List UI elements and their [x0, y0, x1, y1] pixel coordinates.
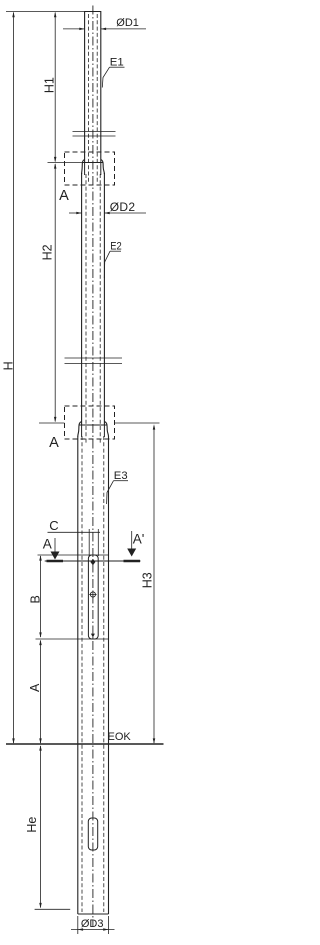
svg-text:He: He	[25, 817, 39, 833]
svg-text:H3: H3	[140, 572, 154, 588]
svg-text:C: C	[49, 518, 58, 533]
section marker A	[43, 537, 63, 562]
svg-text:E2: E2	[110, 241, 122, 253]
buried slot	[88, 818, 97, 850]
extension line slot bottom	[36, 638, 109, 640]
svg-text:H: H	[1, 361, 15, 370]
cable slot	[88, 555, 98, 639]
joint 2 marks	[65, 358, 123, 364]
dimension H3	[140, 424, 155, 743]
dimension D1	[63, 17, 146, 30]
top level line	[6, 11, 101, 13]
slot edge extension right	[97, 529, 99, 556]
svg-text:A: A	[59, 188, 69, 204]
svg-text:A': A'	[133, 532, 145, 547]
slot top diamond mark	[90, 559, 95, 565]
pole top section	[85, 12, 101, 164]
extension line pole base	[35, 908, 71, 910]
extension line joint 1	[48, 162, 85, 164]
svg-text:E3: E3	[114, 470, 128, 482]
joint 1 crimp	[82, 160, 105, 176]
svg-text:A: A	[49, 435, 59, 451]
dimension He	[25, 745, 42, 908]
dimension D2	[69, 200, 146, 214]
section marker A'	[124, 531, 145, 561]
pole bottom section	[77, 436, 79, 914]
dimension D3	[71, 916, 115, 934]
svg-text:E1: E1	[110, 57, 124, 69]
svg-text:H1: H1	[43, 77, 57, 93]
label E3	[107, 470, 128, 504]
slot edge extension left	[88, 529, 90, 556]
joint 1 marks	[73, 132, 116, 137]
svg-text:EOK: EOK	[108, 731, 132, 743]
ground line EOK	[6, 743, 164, 745]
section line A-A'	[45, 560, 141, 562]
svg-text:H2: H2	[40, 244, 54, 260]
pole middle section inner walls	[85, 174, 87, 443]
slot bolt hole	[89, 591, 96, 598]
pole bottom section inner walls	[81, 436, 83, 912]
svg-text:ØD3: ØD3	[81, 918, 104, 930]
svg-text:ØD1: ØD1	[116, 17, 139, 29]
dimension H2	[40, 163, 56, 422]
pole centerline	[92, 6, 94, 928]
label E1	[102, 57, 124, 88]
svg-text:A: A	[43, 537, 52, 552]
dimension H	[1, 12, 15, 744]
extension line joint 2 right	[115, 422, 160, 424]
svg-text:B: B	[29, 595, 43, 603]
slot bottom arrow mark	[91, 634, 95, 638]
dimension H1	[43, 12, 57, 162]
pole top section inner walls	[88, 14, 90, 182]
pole middle section	[81, 173, 83, 425]
dimension B	[29, 555, 43, 637]
detail box A joint 2	[65, 406, 115, 439]
svg-text:ØD2: ØD2	[110, 200, 136, 214]
extension line joint 2 left	[39, 422, 65, 424]
dimension C	[48, 518, 101, 533]
svg-text:A: A	[28, 683, 42, 692]
dimension A (lower)	[28, 640, 42, 744]
label E2	[104, 241, 122, 279]
detail box A joint 1	[65, 152, 115, 185]
extension line slot top	[38, 554, 109, 556]
joint 2 crimp	[78, 422, 109, 438]
